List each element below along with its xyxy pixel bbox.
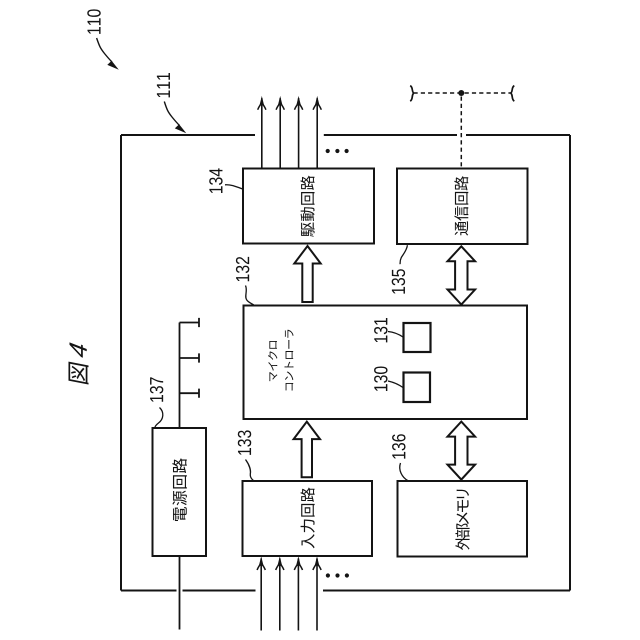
block arrow input circuit to microcontroller (294, 422, 320, 478)
power tap prong 1 (180, 318, 200, 327)
reference numeral 135 (392, 269, 405, 293)
leader line for 134 (225, 185, 243, 189)
reference numeral 137 (150, 377, 163, 401)
reference numeral 132 (236, 257, 249, 281)
power tap prong 3 (180, 389, 200, 398)
ellipsis dots bottom (326, 573, 349, 577)
antenna right brace end (511, 86, 514, 102)
reference numeral 134 (209, 168, 222, 193)
output signal arrow 3 from drive circuit (295, 96, 303, 169)
antenna left brace end (410, 86, 413, 102)
block 135 communication circuit 通信回路 box (397, 169, 528, 245)
input signal arrow 2 into input circuit (276, 556, 284, 630)
leader line for 136 (400, 463, 408, 481)
block arrow microcontroller to drive circuit (294, 246, 320, 302)
power wire below power circuit (179, 556, 181, 630)
power wire above power circuit (179, 323, 181, 429)
outer housing 111 (rectangle with pass-through gaps) (121, 135, 570, 591)
leader line for 132 (246, 286, 254, 305)
block 137 power circuit 電源回路 box (153, 428, 207, 556)
leader line for 130 (388, 381, 403, 388)
label text 通信回路 (454, 176, 468, 235)
block 130 memory square inside microcontroller (404, 373, 431, 403)
label text 駆動回路 (300, 176, 314, 237)
power tap prong 2 (180, 353, 200, 362)
reference numeral 110 (87, 9, 100, 34)
block 136 external memory 外部メモリ box (398, 481, 528, 557)
block 131 CPU core square inside microcontroller (404, 323, 431, 352)
leader line for 133 (246, 460, 255, 482)
figure caption 図 4 (69, 342, 89, 384)
reference numeral 130 (374, 366, 387, 391)
reference numeral 111 (157, 73, 170, 97)
antenna dashed span (414, 92, 512, 94)
antenna dashed feed line to communication circuit (460, 97, 462, 169)
input signal arrow 1 into input circuit (257, 556, 265, 630)
ellipsis dots top (326, 149, 349, 153)
leader arrow for 110 (97, 38, 119, 70)
label text マイクロ (268, 341, 277, 381)
leader line for 131 (388, 332, 403, 338)
leader line for 137 (155, 408, 163, 428)
double block arrow microcontroller - external memory (448, 422, 476, 480)
reference numeral 133 (238, 430, 251, 454)
reference numeral 136 (392, 434, 405, 458)
input signal arrow 3 into input circuit (294, 556, 302, 630)
output signal arrow 1 from drive circuit (258, 96, 266, 169)
leader arrow for 111 (164, 102, 186, 134)
antenna feed dot (458, 90, 464, 96)
reference numeral 131 (374, 318, 387, 342)
output signal arrow 2 from drive circuit (276, 96, 284, 169)
label text コントローラ (285, 330, 294, 391)
label text 外部メモリ (455, 490, 469, 550)
output signal arrow 4 from drive circuit (313, 96, 321, 169)
label text 入力回路 (301, 488, 315, 549)
leader line for 135 (400, 245, 407, 264)
label text 電源回路 (172, 458, 187, 521)
block 133 input circuit 入力回路 box (243, 481, 373, 556)
input signal arrow 4 into input circuit (313, 556, 321, 630)
block 132 microcontroller box (244, 306, 528, 420)
double block arrow microcontroller - communication circuit (448, 246, 476, 304)
block 134 drive circuit 駆動回路 box (243, 169, 374, 244)
